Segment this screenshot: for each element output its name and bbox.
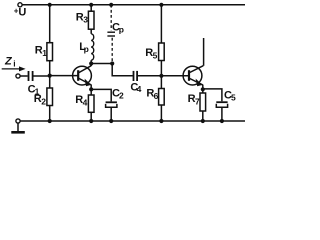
resistor R5 bbox=[160, 5, 162, 43]
node base Q2 bbox=[159, 74, 163, 78]
svg-text:5: 5 bbox=[231, 92, 236, 102]
wire top supply rail bbox=[22, 4, 245, 6]
node emitter Q1 bbox=[89, 87, 93, 91]
terminal input bbox=[16, 74, 20, 78]
terminal +U bbox=[18, 3, 22, 7]
wire R1 top bbox=[49, 5, 51, 43]
node R2 ground bbox=[48, 119, 52, 123]
svg-text:7: 7 bbox=[195, 96, 200, 106]
wire emitter Q2 down bbox=[202, 85, 204, 90]
node collector Q1 bbox=[89, 61, 93, 65]
capacitor Cp dashed top lead bbox=[110, 5, 112, 31]
svg-text:2: 2 bbox=[41, 96, 46, 106]
wire C4 to base node Q2 bbox=[138, 75, 161, 77]
svg-text:2: 2 bbox=[119, 90, 124, 100]
wire C2 bottom bbox=[110, 107, 112, 121]
ground bbox=[17, 123, 19, 131]
wire collector node to Cp corner bbox=[91, 63, 112, 65]
wire R6 bottom bbox=[160, 105, 162, 121]
capacitor C4 bbox=[133, 71, 135, 81]
wire collector Q2 up (open end) bbox=[203, 38, 205, 66]
capacitor C1 bbox=[28, 71, 30, 81]
node base Q1 bbox=[48, 74, 52, 78]
wire Lp to collector node bbox=[90, 60, 92, 63]
resistor R2 bbox=[49, 76, 51, 88]
node C2 ground bbox=[109, 119, 113, 123]
svg-text:p: p bbox=[84, 44, 89, 54]
svg-text:Z: Z bbox=[4, 55, 13, 67]
node R5 top bbox=[159, 3, 163, 7]
transistor Q1 bbox=[73, 66, 92, 85]
svg-text:i: i bbox=[13, 59, 15, 69]
wire emitter Q2 to C5 bbox=[203, 89, 222, 101]
node Cp bottom bbox=[110, 61, 114, 65]
wire emitter Q1 to C2 bbox=[91, 89, 111, 101]
inductor Lp bbox=[91, 34, 94, 60]
wire input to C1 bbox=[20, 75, 27, 77]
resistor R7 bbox=[202, 89, 204, 93]
wire C1 to base node bbox=[34, 75, 50, 77]
node R7 ground bbox=[201, 119, 205, 123]
resistor R6 bbox=[160, 76, 162, 89]
wire base Q1 bbox=[50, 75, 78, 77]
capacitor C2 bbox=[106, 101, 117, 103]
node C5 ground bbox=[220, 119, 224, 123]
svg-text:1: 1 bbox=[42, 48, 47, 58]
node R6 ground bbox=[159, 119, 163, 123]
svg-text:4: 4 bbox=[83, 97, 88, 107]
capacitor C5 bbox=[216, 101, 227, 103]
wire R4 bottom bbox=[90, 112, 92, 121]
wire R2 bottom bbox=[49, 106, 51, 122]
resistor R1 bbox=[47, 43, 53, 61]
transistor Q2 bbox=[183, 66, 202, 85]
arrow input impedance bbox=[2, 68, 20, 70]
node R1 top bbox=[48, 3, 52, 7]
wire R1 bottom bbox=[49, 61, 51, 76]
svg-text:U: U bbox=[18, 7, 26, 19]
wire R3 to Lp bbox=[90, 29, 92, 34]
node R3 top bbox=[89, 3, 93, 7]
node Cp top bbox=[109, 3, 113, 7]
svg-text:3: 3 bbox=[83, 15, 88, 25]
svg-text:6: 6 bbox=[154, 91, 159, 101]
node emitter Q2 bbox=[201, 87, 205, 91]
svg-text:1: 1 bbox=[35, 86, 40, 96]
wire C5 bottom bbox=[221, 107, 223, 121]
wire bottom ground rail bbox=[20, 120, 245, 122]
terminal ground bbox=[16, 119, 20, 123]
resistor R4 bbox=[90, 89, 92, 95]
wire R5 bottom bbox=[160, 61, 162, 76]
wire emitter Q1 down bbox=[90, 85, 92, 90]
node R4 ground bbox=[89, 119, 93, 123]
wire R7 bottom bbox=[202, 111, 204, 121]
wire base Q2 bbox=[161, 75, 188, 77]
svg-text:4: 4 bbox=[137, 84, 142, 94]
capacitor Cp plates bbox=[107, 31, 115, 33]
svg-text:5: 5 bbox=[153, 51, 158, 61]
wire corner down bbox=[112, 64, 133, 76]
svg-text:p: p bbox=[119, 25, 124, 35]
resistor R3 bbox=[90, 5, 92, 11]
capacitor Cp dashed bottom lead bbox=[111, 38, 113, 62]
wire collector Q1 up bbox=[90, 64, 92, 67]
